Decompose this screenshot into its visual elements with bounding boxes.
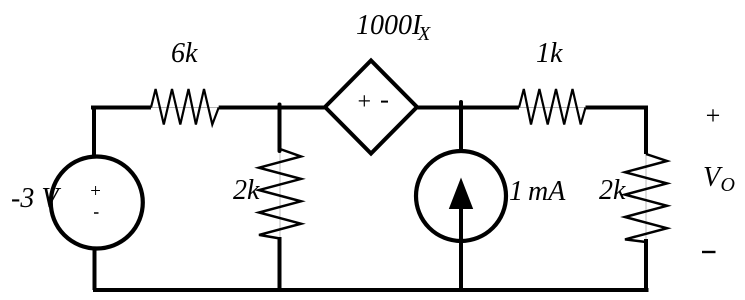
svg-text:1k: 1k xyxy=(536,38,563,69)
svg-text:O: O xyxy=(721,174,735,196)
svg-text:2k: 2k xyxy=(233,175,260,206)
svg-text:+: + xyxy=(356,89,372,115)
svg-text:1000I: 1000I xyxy=(356,10,423,41)
svg-text:-3 V: -3 V xyxy=(11,183,61,214)
svg-text:6k: 6k xyxy=(171,38,198,69)
svg-text:X: X xyxy=(417,23,431,45)
svg-text:+: + xyxy=(89,181,102,202)
svg-text:2k: 2k xyxy=(599,175,626,206)
svg-text:mA: mA xyxy=(528,176,566,207)
svg-text:+: + xyxy=(704,101,722,130)
svg-text:1: 1 xyxy=(509,176,523,207)
